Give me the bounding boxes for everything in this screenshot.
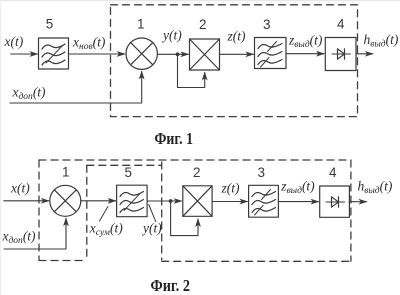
wire multiplier 1 to filter 5 fig2	[81, 200, 116, 202]
wire squarer 2 to filter 3 fig1	[220, 53, 254, 55]
detector block 4 with diode fig1	[325, 38, 356, 71]
filter block 3 fig2	[249, 185, 279, 217]
svg-text:2: 2	[193, 165, 201, 180]
svg-text:1: 1	[137, 16, 145, 31]
svg-text:5: 5	[46, 17, 54, 32]
svg-text:xдоп(t): xдоп(t)	[12, 84, 47, 102]
svg-text:y(t): y(t)	[161, 28, 182, 43]
svg-text:x(t): x(t)	[4, 34, 24, 49]
svg-text:2: 2	[199, 17, 207, 32]
feedback wire into squarer 2 fig2	[171, 201, 198, 236]
svg-text:Фиг. 1: Фиг. 1	[155, 129, 194, 148]
filter block 5 fig2	[117, 185, 148, 217]
svg-text:xдоп(t): xдоп(t)	[2, 229, 37, 247]
svg-text:4: 4	[337, 16, 345, 31]
filter block 5 fig1	[39, 38, 69, 69]
wire filter 5 to multiplier 1 fig1	[69, 53, 125, 55]
svg-text:3: 3	[263, 17, 271, 32]
junction dot fig2	[169, 199, 173, 203]
svg-text:hвыд(t): hвыд(t)	[358, 179, 393, 197]
svg-text:z(t): z(t)	[221, 181, 241, 196]
dashed bottom edge fig2	[162, 260, 351, 262]
svg-text:z(t): z(t)	[227, 29, 247, 44]
output wire fig2	[349, 201, 366, 203]
squarer block 2 fig1	[190, 39, 220, 70]
wire squarer 2 to filter 3 fig2	[212, 201, 247, 203]
multiplier circle 1 fig2	[50, 185, 81, 216]
leader line y(t) fig2	[149, 205, 156, 222]
wire x_dop(t) into bottom of multiplier 1 fig1	[10, 72, 142, 104]
svg-text:xнов(t): xнов(t)	[72, 34, 106, 52]
multiplier circle 1 fig1	[126, 38, 157, 69]
wire x(t) into multiplier 1 fig2	[4, 200, 49, 202]
output wire fig1	[356, 53, 373, 55]
wire filter 3 to detector 4 fig1	[286, 53, 324, 55]
svg-text:3: 3	[258, 165, 266, 180]
wire filter 5 to squarer 2 fig2	[147, 200, 182, 202]
dashed enclosure box fig1	[111, 5, 358, 117]
svg-text:y(t): y(t)	[141, 221, 162, 236]
wire x_dop(t) into bottom of multiplier 1 fig2	[4, 218, 66, 249]
junction dot fig1	[176, 52, 180, 56]
squarer block 2 fig2	[183, 186, 212, 217]
wire filter 3 to detector 4 fig2	[278, 201, 318, 203]
dashed top rail fig2	[39, 159, 351, 161]
dashed right edge fig2	[350, 160, 352, 261]
wire multiplier 1 to squarer 2 fig1	[158, 53, 189, 55]
dashed divider left of squarer 2 fig2	[161, 162, 163, 260]
svg-text:x(t): x(t)	[10, 181, 30, 196]
svg-text:hвыд(t): hвыд(t)	[364, 32, 399, 50]
dashed box around multiplier 1 fig2 left edge	[38, 160, 40, 261]
detector block 4 with diode fig2	[320, 186, 350, 217]
dashed inner top edge over filter 5 fig2	[87, 164, 162, 166]
dashed box around multiplier 1 fig2 bottom edge	[39, 260, 87, 262]
svg-text:5: 5	[125, 165, 133, 180]
svg-text:Фиг. 2: Фиг. 2	[151, 276, 191, 295]
filter block 3 fig1	[255, 38, 287, 69]
svg-text:zвыд(t): zвыд(t)	[288, 32, 323, 50]
svg-text:xсум(t): xсум(t)	[89, 221, 123, 239]
wire x(t) input to filter 5 fig1	[11, 53, 38, 55]
scan border top	[0, 0, 400, 1]
leader line x_sum(t) fig2	[100, 207, 108, 222]
dashed divider right of multiplier 1 fig2	[86, 165, 88, 260]
feedback wire into squarer 2 fig1	[178, 54, 205, 87]
scan border left	[0, 0, 1, 295]
svg-text:4: 4	[329, 165, 337, 180]
svg-text:zвыд(t): zвыд(t)	[280, 179, 315, 197]
svg-text:1: 1	[62, 165, 70, 180]
